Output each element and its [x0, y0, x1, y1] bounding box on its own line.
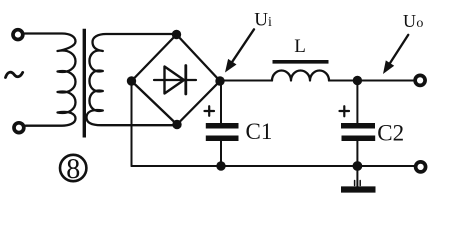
node: bridge top vertex	[172, 30, 181, 39]
ground stub wire	[356, 166, 358, 187]
capacitor C1 plates	[206, 123, 239, 129]
capacitor C2 polarity plus	[340, 106, 350, 116]
node: C2 top junction (Uo node)	[353, 76, 362, 85]
bridge rectifier diamond	[132, 35, 221, 125]
figure number circle	[60, 155, 86, 181]
node: bridge bottom vertex	[172, 120, 181, 129]
diode D (inside bridge) anode-cathode line	[154, 79, 196, 81]
transformer T1 primary winding (with leads)	[25, 34, 76, 126]
svg-text:C2: C2	[377, 120, 404, 145]
inductor L core bar	[273, 60, 329, 64]
capacitor C2 plates	[341, 123, 375, 129]
svg-text:o: o	[416, 16, 423, 31]
arrowhead Uo	[383, 60, 394, 74]
node: bridge right vertex (Ui node)	[215, 76, 224, 85]
capacitor C2 bottom lead	[356, 138, 358, 166]
svg-text:C1: C1	[246, 119, 273, 144]
capacitor C1 top lead	[220, 81, 222, 126]
inductor L winding	[272, 71, 329, 81]
svg-text:U: U	[403, 11, 416, 31]
wire: bottom (negative) rail	[132, 165, 415, 167]
node: C1 bottom junction	[216, 161, 225, 170]
svg-text:8: 8	[66, 154, 80, 185]
terminal J4 (output bottom-right)	[416, 162, 426, 172]
transformer T1 core	[83, 29, 86, 138]
wire: top rail bridge to inductor	[220, 80, 272, 82]
arrow for Ui	[232, 29, 254, 61]
capacitor C1 polarity plus	[205, 106, 215, 116]
ground tick marks	[355, 181, 361, 186]
svg-text:L: L	[294, 36, 306, 57]
diode D cathode bar	[184, 66, 187, 95]
wire: bridge left vertex down to ground rail	[131, 81, 133, 166]
node: bridge left vertex	[127, 76, 136, 85]
arrowhead Ui	[225, 59, 237, 73]
svg-text:i: i	[268, 15, 272, 30]
ground bar	[341, 186, 376, 192]
terminal J2 (AC input bottom-left)	[14, 123, 24, 133]
diode D triangle	[165, 67, 185, 94]
capacitor C1 bottom lead	[220, 138, 222, 166]
transformer T1 secondary winding (with leads)	[87, 34, 178, 125]
node: C2 bottom / ground junction	[353, 161, 363, 171]
capacitor C2 top lead	[356, 81, 358, 127]
AC source tilde symbol	[6, 72, 23, 77]
wire: top rail inductor to output	[329, 80, 413, 82]
terminal J1 (AC input top-left)	[13, 30, 23, 40]
arrow for Uo	[390, 35, 408, 63]
svg-text:U: U	[254, 10, 268, 31]
terminal J3 (output top-right)	[415, 75, 425, 85]
